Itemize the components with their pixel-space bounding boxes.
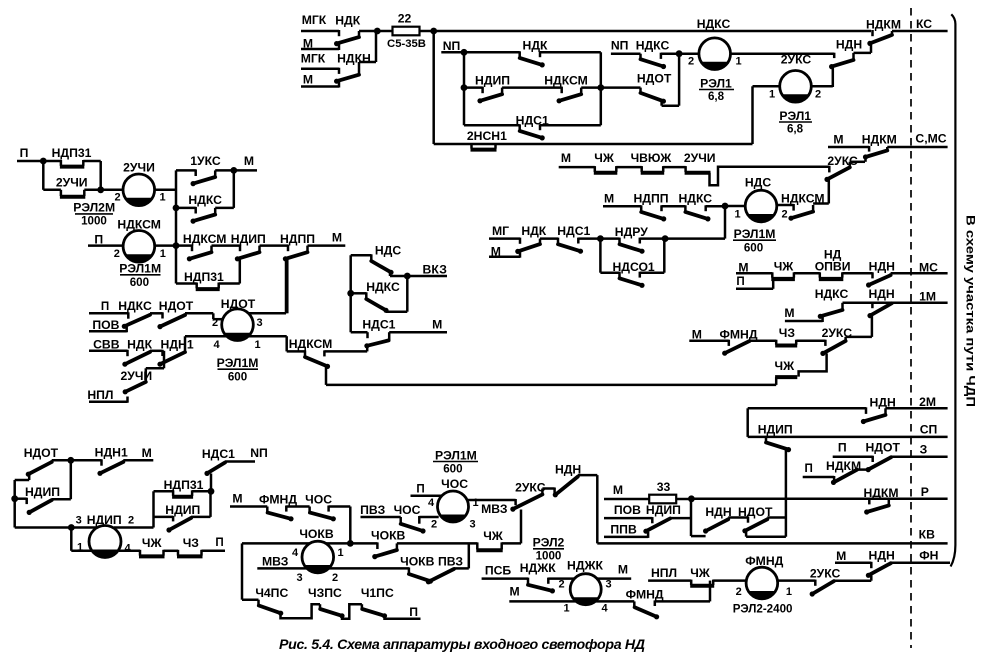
svg-text:4: 4 <box>292 547 299 559</box>
wire НДОТ common loop <box>745 531 748 537</box>
svg-text:М: М <box>142 446 152 460</box>
svg-text:3: 3 <box>76 515 82 527</box>
svg-text:НДИП: НДИП <box>231 232 266 246</box>
wire КВ east <box>597 542 947 545</box>
svg-text:1: 1 <box>254 339 260 351</box>
svg-text:6,8: 6,8 <box>787 123 804 136</box>
svg-text:2НСН1: 2НСН1 <box>467 129 507 143</box>
svg-text:М: М <box>692 327 702 341</box>
node N <box>173 242 180 249</box>
node D <box>597 84 604 91</box>
svg-text:НДКМ: НДКМ <box>862 132 897 146</box>
svg-text:НДК: НДК <box>127 337 152 351</box>
svg-text:NП: NП <box>443 39 461 53</box>
node L <box>230 167 237 174</box>
node B <box>430 28 437 35</box>
wire С,МС output <box>887 146 947 149</box>
svg-text:НДОТ: НДОТ <box>159 299 194 313</box>
svg-text:РЭЛ1: РЭЛ1 <box>779 109 811 123</box>
svg-text:М: М <box>613 483 623 497</box>
svg-text:2: 2 <box>815 89 821 101</box>
wire НДН to КВ <box>596 475 599 543</box>
svg-text:НДКС: НДКС <box>366 280 400 294</box>
svg-text:НДКСМ: НДКСМ <box>544 74 588 88</box>
svg-text:2: 2 <box>128 515 134 527</box>
svg-text:2: 2 <box>736 586 742 598</box>
svg-text:1: 1 <box>159 192 165 204</box>
svg-text:М: М <box>332 231 342 245</box>
wire left rail bl <box>13 480 16 528</box>
svg-text:1000: 1000 <box>81 215 107 228</box>
wire riser bl <box>70 460 73 499</box>
wire 2М to СП <box>746 408 749 437</box>
svg-text:НДН1: НДН1 <box>161 338 194 352</box>
wire 2УКС pin1 to NP bottom <box>753 85 780 88</box>
wire НДКСМ riser <box>828 179 831 203</box>
svg-text:НДОТ: НДОТ <box>637 72 672 86</box>
wire КС output <box>892 30 948 33</box>
wire junction to node A <box>375 31 378 62</box>
svg-text:ЧОС: ЧОС <box>305 492 332 506</box>
svg-text:Рис. 5.4. Схема аппаратуры вхо: Рис. 5.4. Схема аппаратуры входного свет… <box>279 637 645 653</box>
svg-text:2: 2 <box>781 209 787 221</box>
svg-text:НДКН: НДКН <box>337 52 371 66</box>
svg-text:П: П <box>215 536 223 549</box>
node E <box>676 50 683 57</box>
node M <box>173 205 180 212</box>
wire ВКЗ rail <box>349 255 352 332</box>
svg-text:РЭЛ2-2400: РЭЛ2-2400 <box>733 602 793 615</box>
node G2 <box>662 235 669 242</box>
svg-text:NП: NП <box>611 38 629 52</box>
svg-text:Ч1ПС: Ч1ПС <box>361 586 394 600</box>
svg-text:М: М <box>303 73 313 87</box>
svg-text:1: 1 <box>563 603 569 615</box>
svg-text:1: 1 <box>734 209 740 221</box>
wire НДИП common down <box>785 450 788 537</box>
node H <box>688 495 695 502</box>
svg-text:НДКС: НДКС <box>636 38 670 52</box>
svg-text:НДКС: НДКС <box>188 193 222 207</box>
svg-text:НДН: НДН <box>869 260 895 274</box>
svg-text:НДЖК: НДЖК <box>520 561 556 575</box>
wire branch down <box>99 161 102 190</box>
svg-text:600: 600 <box>443 462 462 475</box>
wire 1М line <box>843 302 948 305</box>
wire НДН common down <box>871 316 874 337</box>
svg-text:П: П <box>20 146 29 160</box>
wire top supply line <box>434 30 871 33</box>
svg-text:ЧВЮЖ: ЧВЮЖ <box>631 151 673 165</box>
svg-text:2УКС: 2УКС <box>515 481 546 495</box>
node O <box>404 273 411 280</box>
wire НДИП pin1 <box>70 528 73 551</box>
contact МГК-НДКН/М changeover <box>301 67 339 70</box>
svg-text:33: 33 <box>657 480 671 494</box>
svg-text:ПВЗ: ПВЗ <box>438 554 463 568</box>
svg-text:НДОТ: НДОТ <box>865 441 900 455</box>
svg-text:1: 1 <box>786 586 792 598</box>
svg-text:М: М <box>303 37 313 51</box>
svg-text:НДРУ: НДРУ <box>615 225 648 239</box>
wire НДОТ pin1 <box>249 335 287 338</box>
svg-text:600: 600 <box>744 242 763 255</box>
svg-text:НДИП: НДИП <box>165 503 200 517</box>
svg-text:РЭЛ2: РЭЛ2 <box>533 536 565 550</box>
wire СП line <box>748 436 948 439</box>
svg-text:НДН: НДН <box>555 462 581 476</box>
svg-text:4: 4 <box>428 497 435 509</box>
svg-text:М: М <box>432 317 442 331</box>
svg-text:ОПВИ: ОПВИ <box>815 260 851 274</box>
node Q <box>67 457 74 464</box>
svg-text:НДП31: НДП31 <box>52 146 92 160</box>
svg-text:М: М <box>561 151 571 165</box>
wire 2УКС pin2 <box>812 85 833 88</box>
svg-text:НДП31: НДП31 <box>164 478 204 492</box>
wire НДПП common down <box>285 259 288 313</box>
svg-text:ЧОС: ЧОС <box>394 503 421 517</box>
svg-text:3: 3 <box>469 519 475 531</box>
svg-text:НДН: НДН <box>868 287 894 301</box>
svg-text:РЭЛ1М: РЭЛ1М <box>734 227 776 241</box>
svg-text:2УКС: 2УКС <box>810 566 841 580</box>
svg-text:НДПП: НДПП <box>280 232 315 246</box>
wire 2УКС to НДН <box>832 67 835 87</box>
svg-text:ФМНД: ФМНД <box>719 327 757 341</box>
node S <box>208 488 215 495</box>
svg-text:КВ: КВ <box>919 527 935 541</box>
svg-text:1М: 1М <box>919 290 936 304</box>
svg-text:СВВ: СВВ <box>93 337 120 351</box>
svg-text:ЧОКВ: ЧОКВ <box>299 527 333 541</box>
svg-text:П: П <box>736 275 744 288</box>
wire РЭЛ1 output <box>731 52 835 55</box>
wire ЧЖ branch <box>799 353 827 376</box>
wire ФМНД riser <box>709 581 712 602</box>
svg-text:2: 2 <box>114 248 120 260</box>
svg-text:НДК: НДК <box>523 39 548 53</box>
wire H down <box>690 499 693 536</box>
svg-text:КС: КС <box>916 17 932 31</box>
svg-text:НДС1: НДС1 <box>557 224 590 238</box>
svg-text:ФМНД: ФМНД <box>259 492 297 506</box>
svg-text:НДИП: НДИП <box>646 503 681 517</box>
svg-text:НДП31: НДП31 <box>184 270 224 284</box>
svg-text:6,8: 6,8 <box>708 90 725 103</box>
svg-text:РЭЛ1М: РЭЛ1М <box>119 262 161 276</box>
contact МГК-НДК/М changeover <box>301 30 339 33</box>
svg-text:М: М <box>244 154 254 168</box>
svg-text:ЧЖ: ЧЖ <box>594 151 615 165</box>
wire 2УКС tap <box>520 510 523 544</box>
node R <box>68 524 75 531</box>
svg-text:ФН: ФН <box>919 549 938 563</box>
contact НДС1 break <box>464 124 520 127</box>
svg-text:2: 2 <box>558 579 564 591</box>
svg-text:3: 3 <box>256 317 262 329</box>
svg-text:2М: 2М <box>919 395 936 409</box>
svg-text:НДКС: НДКС <box>697 17 731 31</box>
svg-text:П: П <box>101 300 109 313</box>
node F <box>722 203 729 210</box>
wire НДОТ pin3 <box>286 259 289 313</box>
contact НДК break <box>464 51 520 54</box>
svg-text:22: 22 <box>398 12 412 26</box>
wire ЧОКВ pin4 <box>242 542 310 545</box>
svg-text:ЧОС: ЧОС <box>441 477 468 491</box>
node A <box>374 28 381 35</box>
svg-text:НДПП: НДПП <box>633 192 668 206</box>
svg-text:МВЗ: МВЗ <box>262 555 289 569</box>
svg-text:РЭЛ1М: РЭЛ1М <box>217 356 259 370</box>
svg-text:НДКС: НДКС <box>118 299 152 313</box>
svg-text:NП: NП <box>250 446 268 460</box>
svg-text:ЧЖ: ЧЖ <box>483 529 504 543</box>
svg-text:М: М <box>833 132 843 146</box>
wire НДИП pin4 row <box>119 550 140 553</box>
svg-text:НДИП: НДИП <box>25 485 60 499</box>
svg-text:М: М <box>510 585 520 599</box>
svg-text:М: М <box>784 306 794 320</box>
svg-text:4: 4 <box>213 339 220 351</box>
svg-text:НДЖК: НДЖК <box>567 559 603 573</box>
svg-text:2УЧИ: 2УЧИ <box>56 176 88 190</box>
dashed boundary line <box>910 8 912 648</box>
svg-text:ЧЖ: ЧЖ <box>775 359 796 373</box>
svg-text:ЧЗПС: ЧЗПС <box>308 586 342 600</box>
svg-text:З: З <box>920 442 928 456</box>
svg-text:МС: МС <box>919 261 938 275</box>
svg-text:РЭЛ2М: РЭЛ2М <box>73 201 115 215</box>
svg-text:4: 4 <box>124 543 131 555</box>
wire НДН common <box>870 575 873 580</box>
wire ВКЗ rail bottom <box>351 331 368 334</box>
svg-text:Ч4ПС: Ч4ПС <box>255 586 288 600</box>
wire pin1 output <box>778 579 816 582</box>
svg-text:РЭЛ1М: РЭЛ1М <box>435 448 477 462</box>
wire NP block left rail <box>432 31 435 144</box>
wire NP inner right rail <box>600 52 603 125</box>
svg-text:НДКСМ: НДКСМ <box>183 232 227 246</box>
svg-text:ЧЖ: ЧЖ <box>690 566 711 580</box>
svg-text:ВКЗ: ВКЗ <box>423 263 448 277</box>
wire 1УКС left rail <box>175 170 178 245</box>
svg-text:600: 600 <box>130 276 149 289</box>
svg-text:НДН: НДН <box>869 549 895 563</box>
svg-text:Р: Р <box>921 485 929 499</box>
svg-text:СП: СП <box>920 422 938 436</box>
svg-text:1УКС: 1УКС <box>190 154 221 168</box>
svg-text:ПОВ: ПОВ <box>614 503 641 517</box>
svg-text:НДОТ: НДОТ <box>24 446 59 460</box>
resistor 22 С5-35В <box>377 30 393 33</box>
svg-text:НДИП: НДИП <box>758 422 793 436</box>
svg-text:НДКМ: НДКМ <box>866 17 901 31</box>
wire pin4 ФМНД <box>595 600 634 603</box>
contact НДОТ break <box>601 86 641 89</box>
svg-text:РЭЛ1: РЭЛ1 <box>700 77 732 91</box>
svg-text:МГК: МГК <box>302 13 327 27</box>
wire NP block bottom line <box>434 143 753 146</box>
svg-text:ЧОКВ: ЧОКВ <box>371 529 405 543</box>
svg-text:600: 600 <box>228 371 247 384</box>
wire НДКСМ common down long <box>325 366 328 385</box>
node NП <box>461 49 468 56</box>
wire ФН output <box>891 562 950 565</box>
svg-text:НДС1: НДС1 <box>362 317 395 331</box>
svg-text:П: П <box>805 462 813 475</box>
node C <box>461 84 468 91</box>
node J <box>40 158 47 165</box>
svg-text:2: 2 <box>332 572 338 584</box>
svg-text:ЧЗ: ЧЗ <box>183 536 200 550</box>
contact ЧОС break ПВЗ <box>399 517 402 523</box>
svg-text:1: 1 <box>337 547 343 559</box>
svg-text:2: 2 <box>212 317 218 329</box>
svg-text:2УЧИ: 2УЧИ <box>123 161 155 175</box>
wire ЧОКВ pin2 <box>329 567 409 570</box>
svg-text:НДС: НДС <box>745 176 771 190</box>
svg-text:1: 1 <box>735 56 741 68</box>
svg-text:ПВЗ: ПВЗ <box>360 503 385 517</box>
svg-text:ППВ: ППВ <box>610 523 637 537</box>
svg-text:НДИП: НДИП <box>475 74 510 88</box>
svg-text:МГК: МГК <box>301 52 326 66</box>
svg-text:П: П <box>838 441 847 455</box>
node P <box>347 290 354 297</box>
wire long НДКСМ to ЧЖ <box>326 384 776 387</box>
svg-text:НДК: НДК <box>335 14 360 28</box>
wire to НДОТ coil pin2 <box>212 313 215 319</box>
svg-text:С5-35В: С5-35В <box>387 38 426 50</box>
svg-text:1: 1 <box>160 248 166 260</box>
svg-text:3: 3 <box>296 572 302 584</box>
node Q2 <box>11 495 18 502</box>
svg-text:С,МС: С,МС <box>915 132 946 146</box>
svg-text:НДН1: НДН1 <box>95 446 128 460</box>
wire NP inner left rail <box>463 52 466 125</box>
svg-text:М: М <box>232 491 242 505</box>
wire ЧОКВ pin1 <box>326 542 350 545</box>
contact НДИП make <box>464 86 483 89</box>
wire ПВЗ up to КВ <box>468 543 471 568</box>
svg-text:ЧЗ: ЧЗ <box>779 326 796 340</box>
svg-text:НПЛ: НПЛ <box>651 566 677 580</box>
svg-text:МВЗ: МВЗ <box>481 502 508 516</box>
svg-text:М: М <box>604 192 614 206</box>
svg-text:4: 4 <box>601 603 608 615</box>
svg-text:2: 2 <box>114 192 120 204</box>
svg-text:П: П <box>416 483 424 496</box>
svg-text:НПЛ: НПЛ <box>87 388 113 402</box>
svg-text:2УЧИ: 2УЧИ <box>684 151 716 165</box>
wire КВ west <box>397 542 477 545</box>
node I <box>347 540 354 547</box>
svg-text:ЧЖ: ЧЖ <box>142 536 163 550</box>
svg-text:ПСБ: ПСБ <box>485 564 512 578</box>
node G <box>597 235 604 242</box>
svg-text:ФМНД: ФМНД <box>626 587 664 601</box>
wire coil output <box>155 189 176 192</box>
svg-text:2: 2 <box>431 519 437 531</box>
wire ЧОС down <box>349 507 352 544</box>
wire НДС feed riser <box>724 206 727 239</box>
svg-text:НДКС: НДКС <box>679 192 713 206</box>
wire Р line <box>691 498 947 501</box>
svg-text:2УКС: 2УКС <box>781 52 812 66</box>
svg-text:В схему участка пути ЧДП: В схему участка пути ЧДП <box>964 215 978 407</box>
svg-text:М: М <box>618 563 628 577</box>
svg-text:П: П <box>409 605 418 619</box>
svg-text:НДК: НДК <box>521 224 546 238</box>
svg-text:НДКС: НДКС <box>815 287 849 301</box>
wire НДИП pin2 <box>71 526 96 529</box>
wire МС output <box>891 272 948 275</box>
svg-text:МГ: МГ <box>492 224 509 238</box>
svg-text:НДН: НДН <box>836 37 862 51</box>
svg-text:ЧОКВ: ЧОКВ <box>400 554 434 568</box>
svg-text:3: 3 <box>605 579 611 591</box>
svg-text:1: 1 <box>769 89 775 101</box>
svg-text:НДС: НДС <box>375 243 401 257</box>
svg-text:М: М <box>836 549 846 563</box>
svg-text:НДН: НДН <box>705 505 731 519</box>
svg-text:2: 2 <box>688 56 694 68</box>
node K <box>97 186 104 193</box>
wire ЧОКВ left rail <box>241 543 244 599</box>
svg-text:НДС1: НДС1 <box>202 447 235 461</box>
bracket В схему участка пути ЧДП <box>951 14 956 566</box>
relay coil РЭЛ1 НДКС <box>679 52 699 55</box>
svg-text:ЧЖ: ЧЖ <box>774 260 795 274</box>
svg-text:НДКСМ: НДКСМ <box>289 337 333 351</box>
